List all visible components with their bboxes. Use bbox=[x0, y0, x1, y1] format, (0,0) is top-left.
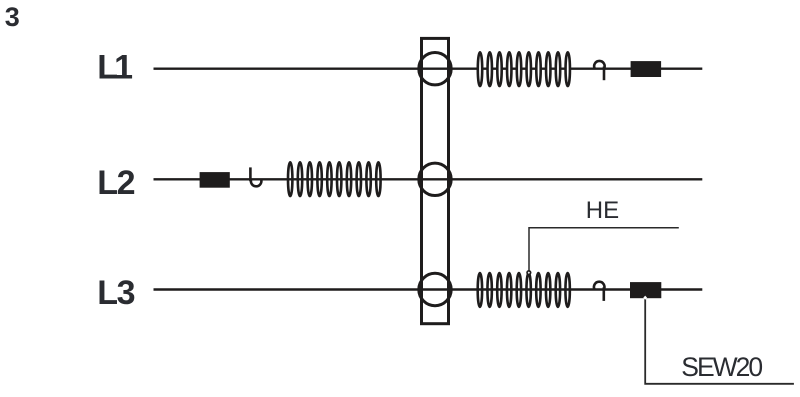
switch body rectangle (vertical frame) bbox=[422, 38, 449, 323]
inductor coil L1 bbox=[478, 52, 570, 86]
contact circle L2 bbox=[419, 163, 451, 195]
svg-text:L2: L2 bbox=[97, 164, 134, 202]
contact circle L3 bbox=[419, 273, 451, 305]
junction HE / coil L3 (small open dot) bbox=[526, 270, 531, 275]
wire L2 bbox=[154, 178, 703, 180]
leader line SEW20 bbox=[645, 298, 794, 384]
thermal trip hook L3 bbox=[594, 282, 605, 301]
svg-text:HE: HE bbox=[586, 197, 619, 224]
svg-text:3: 3 bbox=[5, 2, 20, 32]
leader line HE bbox=[529, 228, 679, 272]
terminal block L1 bbox=[631, 61, 662, 77]
terminal block L2 bbox=[200, 172, 230, 188]
svg-text:SEW20: SEW20 bbox=[681, 352, 762, 382]
thermal trip hook L1 bbox=[594, 61, 605, 80]
wire L1 bbox=[154, 67, 703, 69]
svg-text:L1: L1 bbox=[97, 48, 133, 86]
inductor coil L3 bbox=[478, 273, 570, 307]
junction SEW20 / terminal L3 (small open diamond) bbox=[643, 296, 647, 300]
svg-text:L3: L3 bbox=[97, 274, 134, 312]
contact circle L1 bbox=[419, 52, 451, 84]
wire L3 bbox=[154, 288, 703, 290]
terminal block L3 bbox=[630, 282, 661, 298]
thermal trip hook L2 bbox=[250, 167, 261, 186]
inductor coil L2 bbox=[288, 162, 381, 196]
